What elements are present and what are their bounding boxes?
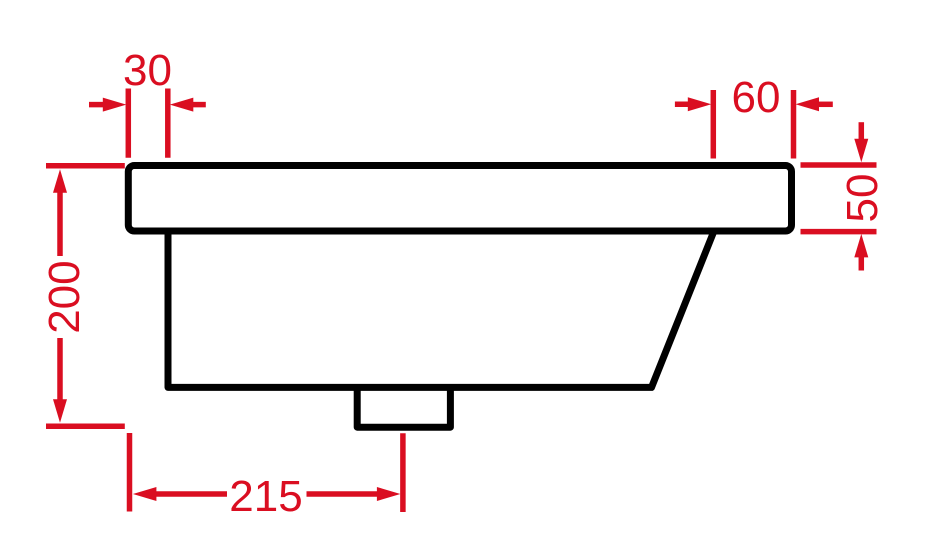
svg-text:30: 30 [123, 46, 172, 95]
svg-text:50: 50 [838, 174, 887, 223]
svg-text:215: 215 [229, 472, 302, 521]
svg-text:60: 60 [732, 73, 781, 122]
svg-text:200: 200 [40, 260, 89, 333]
